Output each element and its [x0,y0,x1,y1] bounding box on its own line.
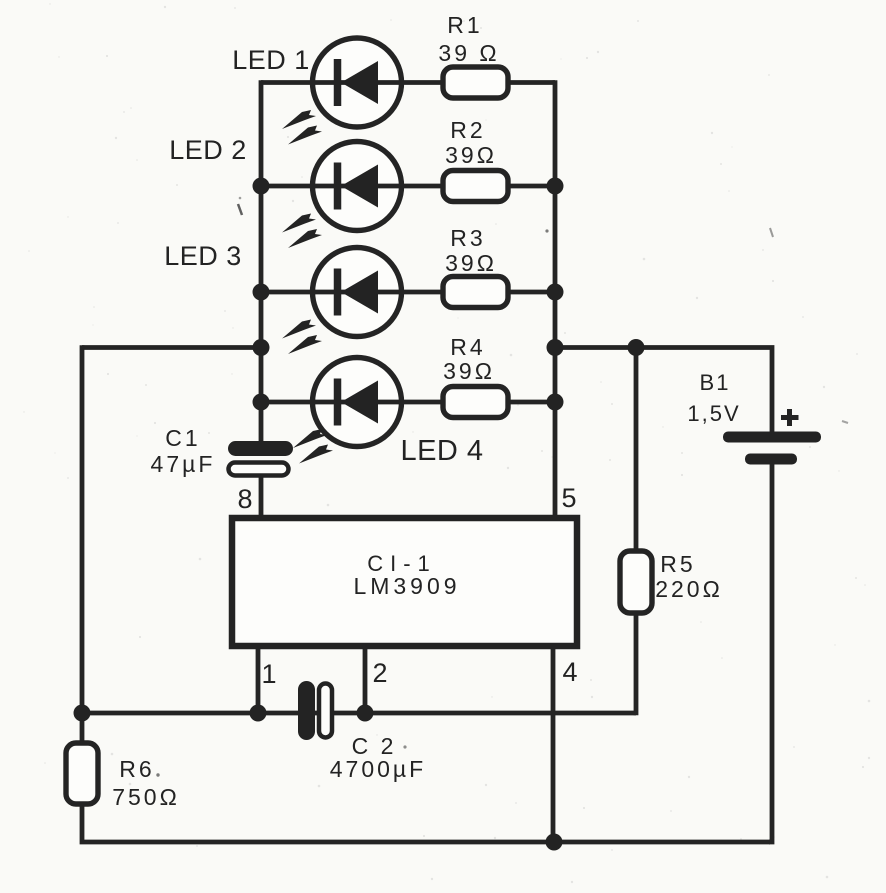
node dot pin1 rail [250,705,267,722]
battery B1 plates [723,432,821,465]
svg-text:R6: R6 [119,756,154,782]
node dot mid-left bus [253,339,270,356]
resistor R3 body [443,277,508,308]
LED LED4 [313,358,402,447]
LED2 light arrows [282,214,322,249]
svg-text:2: 2 [372,658,387,688]
LED LED3 [313,248,402,337]
wire R6 bottom leg [82,804,770,842]
battery plus sign [781,409,799,426]
svg-text:R4: R4 [450,334,485,360]
LED LED2 [313,142,402,231]
node dot row2 right [547,178,564,195]
wire mid left segment [82,345,261,350]
node dot row4 right [547,394,564,411]
wire left anode bus [259,80,264,441]
svg-text:LED 2: LED 2 [169,135,247,165]
LED4 light arrows [293,429,333,464]
wire bottom rail battery leg [769,459,772,842]
op-amp/IC CI-1 LM3909 body [232,518,577,646]
svg-text:R1: R1 [447,12,482,38]
svg-text:LED 1: LED 1 [232,45,310,75]
node dot mid right bus [547,339,564,356]
svg-text:C1: C1 [165,425,200,451]
node dot bottom rail pin4 [546,834,563,851]
svg-text:1: 1 [261,659,276,689]
node dot pin2 rail [357,705,374,722]
resistor R4 body [443,387,508,418]
svg-text:750Ω: 750Ω [112,784,180,810]
wire row2 LED2/R2 [261,184,555,189]
wire pin8 segment [259,476,264,521]
svg-text:R3: R3 [450,225,485,251]
LED1 light arrows [282,110,322,145]
wire mid right segment to battery [555,348,772,438]
wire row3 LED3/R3 [261,290,555,295]
wire R5 top leg [634,348,639,553]
svg-text:220Ω: 220Ω [655,576,723,602]
svg-text:LED 4: LED 4 [400,435,483,467]
resistor R6 body [66,743,98,804]
node dot mid R5 [628,339,645,356]
capacitor C2 [298,681,332,740]
node dot row3 right [547,284,564,301]
capacitor C1 [228,441,293,476]
svg-text:LED 3: LED 3 [164,241,242,271]
LED LED1 [313,38,402,127]
wire pin1 [256,646,261,713]
svg-text:47µF: 47µF [151,451,216,477]
svg-text:1,5V: 1,5V [687,401,740,426]
svg-text:39Ω: 39Ω [443,358,495,384]
wire pin2 [363,646,368,713]
svg-text:4700µF: 4700µF [330,756,426,782]
wire R5 bottom leg [634,612,639,715]
svg-text:B1: B1 [700,370,731,395]
resistor R1 body [443,67,508,98]
svg-text:39Ω: 39Ω [445,250,497,276]
svg-text:39Ω: 39Ω [445,142,497,168]
svg-text:39 Ω: 39 Ω [438,40,499,66]
svg-text:LM3909: LM3909 [353,573,460,599]
wire row4 LED4/R4 [261,400,555,405]
svg-text:8: 8 [237,484,252,514]
wire pin4 [551,646,556,843]
node dot rail left [74,705,91,722]
svg-text:R5: R5 [660,551,695,577]
LED3 light arrows [282,320,322,355]
svg-text:4: 4 [562,657,577,687]
svg-text:R2: R2 [450,117,485,143]
wire row1 LED1/R1 [261,80,555,85]
wire left outer vertical [80,345,85,743]
node dot row4 left [253,394,270,411]
wire right cathode bus [553,80,558,521]
resistor R5 body [620,551,652,613]
svg-text:5: 5 [561,483,576,513]
wire pin1-pin2 rail [82,711,636,716]
node dot row2 left [253,178,270,195]
resistor R2 body [443,171,508,202]
node dot row3 left [253,284,270,301]
